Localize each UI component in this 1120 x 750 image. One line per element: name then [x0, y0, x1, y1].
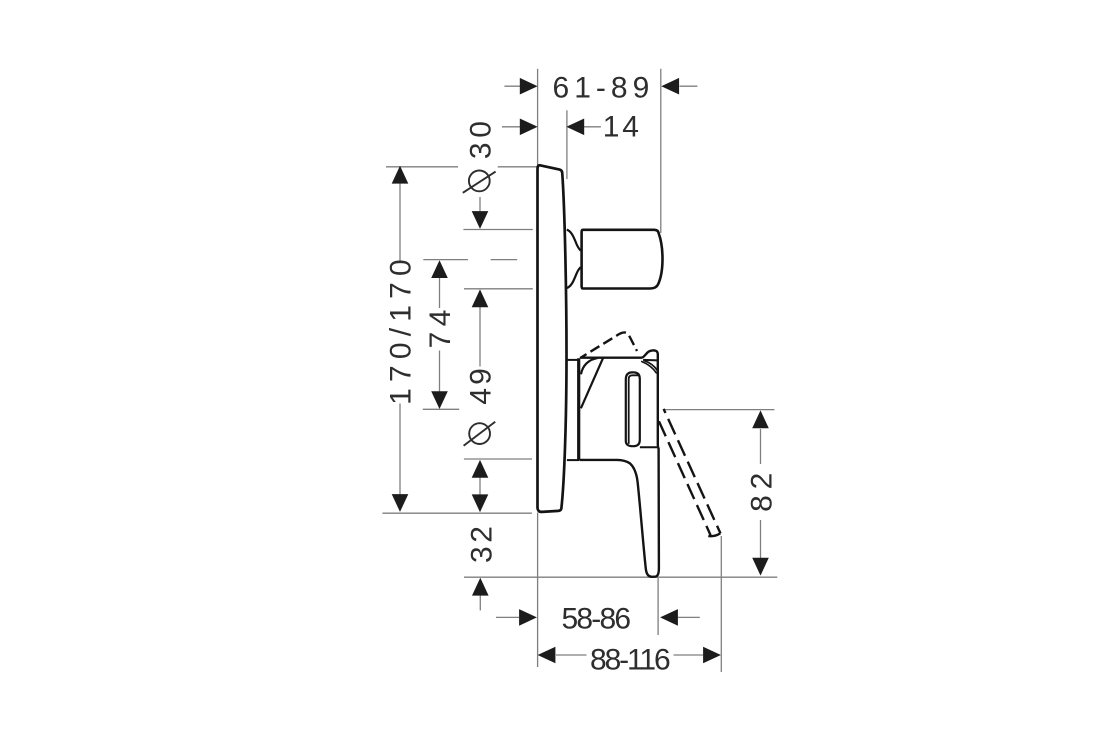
handle collar bottom edge — [567, 459, 579, 461]
wall plate (escutcheon side view) — [538, 165, 567, 512]
lever top surface line under bump — [643, 359, 658, 362]
lever base fillet curve — [581, 358, 598, 374]
ref line handle collar bottom (y=459) — [464, 458, 532, 460]
lever shoulder curve outer — [644, 360, 658, 371]
label 88-116 — [590, 644, 670, 677]
dashed lever open position end cap — [708, 533, 720, 536]
label 74 — [424, 304, 457, 348]
label 14 — [603, 111, 642, 144]
dim d30 shaft x=480 — [479, 197, 481, 211]
label 82 — [746, 467, 779, 512]
svg-text:170/170: 170/170 — [384, 253, 417, 405]
lever loop hole outer — [626, 372, 640, 446]
svg-text:58-86: 58-86 — [562, 602, 631, 635]
svg-text:30: 30 — [465, 116, 498, 159]
arrow d30 up — [472, 289, 489, 307]
label 30 of d30 — [465, 116, 498, 159]
knob axis centerline (y=259.6) — [423, 259, 517, 261]
svg-text:61-89: 61-89 — [553, 71, 655, 104]
svg-text:49: 49 — [465, 365, 498, 404]
dim 61-89 shafts — [504, 85, 697, 87]
dim 14 shafts — [502, 126, 601, 128]
lever base diagonal — [581, 358, 603, 408]
arrow d30 down — [472, 211, 489, 229]
extension line knob right face (x=660.8) — [660, 69, 662, 233]
label 58-86 — [562, 602, 631, 635]
extension line wall/back face (x=537.6 bottom) — [537, 513, 539, 668]
lever shoulder curve inner — [641, 361, 657, 373]
label 49 of d49 — [465, 365, 498, 404]
arrow 61-89 right — [661, 78, 679, 95]
extension line lever bottom right (x=658) — [657, 578, 659, 635]
arrow 82 bottom — [752, 558, 769, 576]
arrow 14 left — [520, 119, 538, 136]
dashed lever raised position outline — [581, 332, 637, 357]
ref line knob bottom (y=288.8) — [464, 288, 533, 290]
ref line plate bottom (y=513.2) — [382, 512, 532, 514]
arrow 74 bottom — [431, 391, 448, 409]
dim d30-d49 link shaft x=480 — [479, 307, 481, 367]
diameter symbol of d49 — [464, 422, 496, 446]
dashed lever open position upper line — [664, 409, 721, 534]
arrow 14 right — [566, 119, 584, 136]
svg-text:82: 82 — [746, 467, 779, 512]
handle collar right edge — [577, 358, 580, 460]
arrow 32 up — [472, 578, 489, 596]
diameter symbol of d30 — [463, 171, 496, 193]
ref tick dim74 bottom (y=409.3) — [423, 408, 459, 410]
ref line dashed lever top (y=409.6) — [664, 409, 775, 411]
svg-text:88-116: 88-116 — [590, 644, 670, 677]
label 170/170 — [384, 253, 417, 405]
arrow 170/170 top — [392, 166, 409, 184]
lever underside line — [640, 446, 658, 448]
dim 58-86 shafts — [496, 616, 700, 618]
svg-text:14: 14 — [603, 111, 642, 144]
dim 170/170 line x=400 — [399, 184, 401, 497]
svg-text:32: 32 — [465, 522, 498, 563]
svg-text:74: 74 — [424, 304, 457, 348]
dim 32 shaft x=480 — [479, 595, 481, 610]
arrow 58-86 right — [660, 609, 678, 626]
dim d49 inner shaft x=480 — [479, 477, 481, 496]
dim 82 shafts x=760.5 — [760, 429, 762, 559]
lever handle body outline — [580, 350, 659, 576]
label 32 — [465, 522, 498, 563]
arrow d49 up — [472, 460, 489, 478]
dim 74 line x=439.5 — [439, 278, 441, 392]
arrow 82 top — [752, 410, 769, 428]
ref line knob top (y=229.5) — [463, 229, 532, 231]
extension line plate front (x=567) — [566, 110, 568, 179]
extension line dashed lever tip (x=721.3) — [720, 536, 722, 672]
arrow 170/170 bottom — [392, 494, 409, 512]
extension line wall/back face (x=537.6 top) — [537, 69, 539, 167]
arrow d49 down — [472, 494, 489, 512]
arrow 58-86 left — [519, 609, 537, 626]
knob stem curves — [567, 230, 581, 288]
dim 88-116 shafts — [556, 654, 703, 656]
arrow 74 top — [431, 260, 448, 278]
arrow 88-116 left — [538, 647, 556, 664]
lever loop hole inner accent — [629, 375, 640, 444]
ref line plate top (y=166.8) — [386, 166, 537, 168]
knob (volume/diverter handle) — [582, 230, 663, 289]
label 61-89 — [553, 71, 655, 104]
dashed lever open position lower line — [659, 421, 711, 535]
arrow 61-89 left — [520, 78, 538, 95]
arrow 88-116 right — [703, 647, 721, 664]
ref line lever bottom (y=577.2) — [464, 576, 777, 578]
handle collar top edge — [567, 359, 579, 361]
